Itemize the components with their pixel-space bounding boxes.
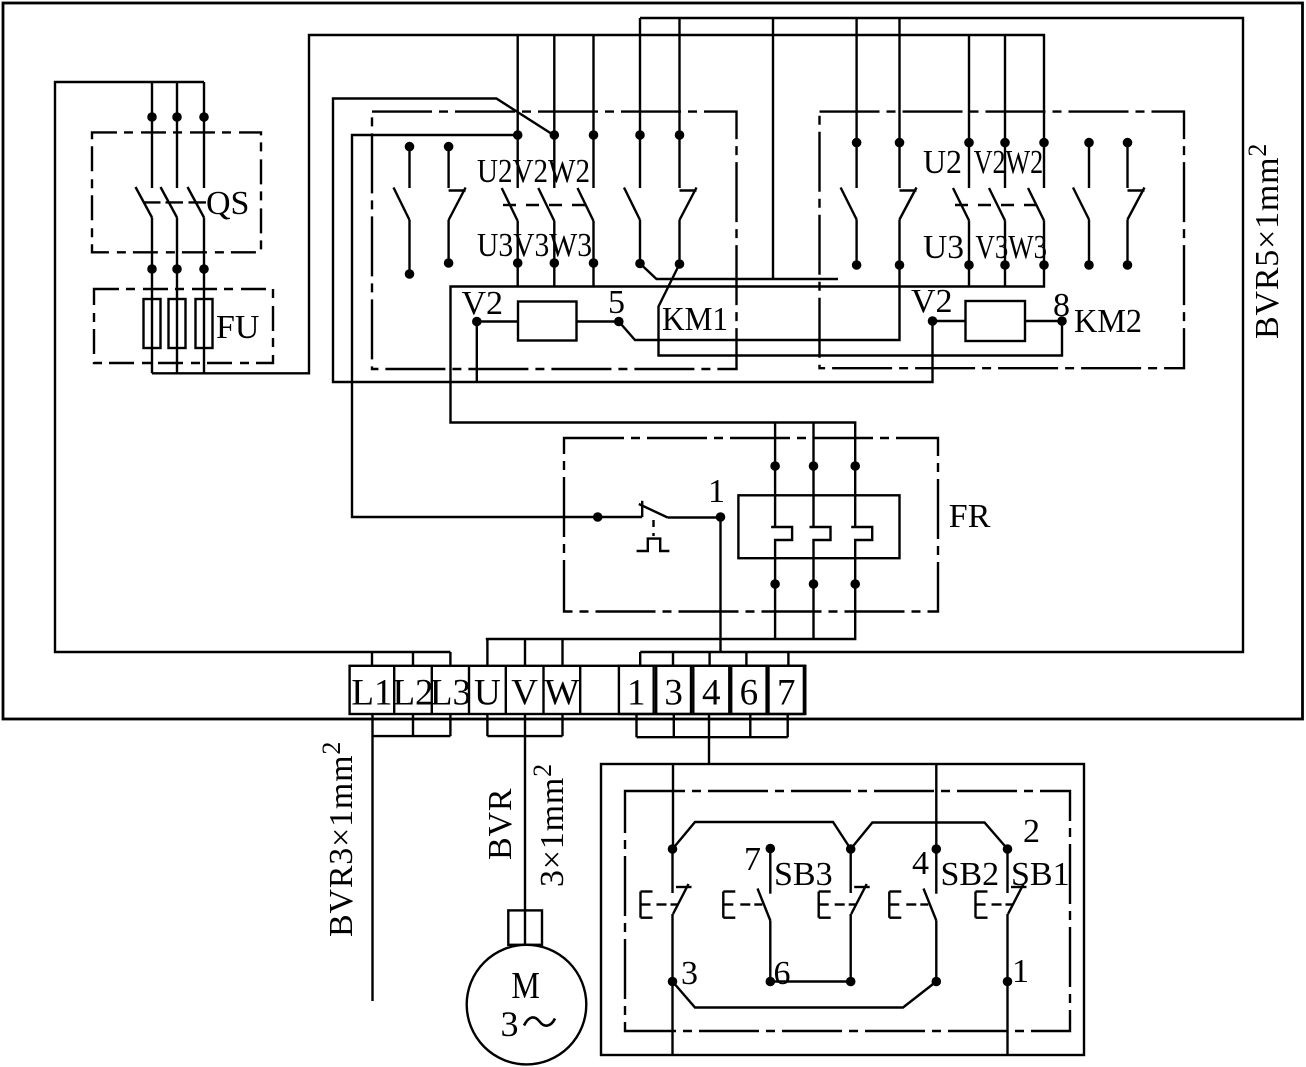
svg-text:KM1: KM1	[662, 301, 728, 338]
svg-text:4: 4	[702, 673, 721, 714]
svg-text:4: 4	[912, 845, 929, 882]
svg-text:V3W3: V3W3	[976, 229, 1048, 266]
svg-text:L1: L1	[351, 673, 392, 714]
svg-text:3×1mm2: 3×1mm2	[528, 763, 571, 887]
svg-text:1: 1	[708, 473, 725, 510]
svg-text:BVR: BVR	[482, 788, 519, 860]
svg-text:U2V2W2: U2V2W2	[477, 153, 590, 190]
svg-text:7: 7	[744, 841, 761, 878]
svg-text:1: 1	[1012, 953, 1029, 990]
svg-text:FU: FU	[216, 309, 259, 346]
svg-text:W: W	[544, 673, 579, 714]
svg-text:U3: U3	[923, 229, 964, 266]
svg-text:SB2: SB2	[941, 856, 1000, 893]
svg-text:SB3: SB3	[774, 856, 833, 893]
svg-text:BVR3×1mm2: BVR3×1mm2	[317, 741, 360, 937]
svg-text:7: 7	[777, 673, 796, 714]
svg-text:U2: U2	[923, 144, 962, 181]
svg-text:BVR5×1mm2: BVR5×1mm2	[1243, 143, 1286, 339]
svg-text:3: 3	[681, 955, 698, 992]
svg-text:SB1: SB1	[1011, 856, 1070, 893]
svg-text:3: 3	[664, 673, 683, 714]
svg-text:6: 6	[740, 673, 759, 714]
svg-text:L3: L3	[430, 673, 471, 714]
svg-text:3: 3	[501, 1004, 519, 1044]
svg-text:QS: QS	[206, 185, 249, 222]
svg-text:1: 1	[627, 673, 646, 714]
svg-text:U: U	[474, 673, 501, 714]
svg-text:5: 5	[608, 284, 625, 321]
svg-text:V2: V2	[462, 285, 504, 322]
svg-text:V2W2: V2W2	[974, 144, 1043, 181]
svg-text:U3V3W3: U3V3W3	[477, 227, 592, 264]
svg-text:KM2: KM2	[1074, 303, 1142, 340]
svg-text:V2: V2	[911, 283, 953, 320]
svg-text:L2: L2	[392, 673, 433, 714]
svg-text:M: M	[511, 965, 540, 1007]
svg-text:6: 6	[774, 955, 791, 992]
svg-text:2: 2	[1023, 813, 1040, 850]
svg-text:8: 8	[1053, 287, 1070, 324]
svg-text:V: V	[511, 673, 538, 714]
svg-text:FR: FR	[949, 498, 991, 535]
